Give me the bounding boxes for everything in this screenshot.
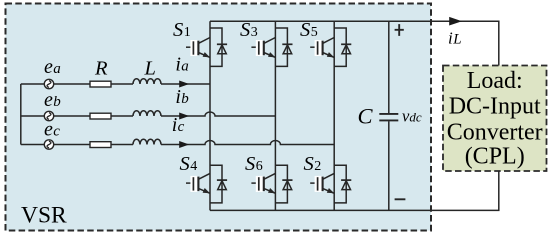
svg-text:Converter: Converter [447, 119, 543, 145]
svg-text:R: R [94, 58, 108, 80]
svg-text:L: L [144, 58, 156, 80]
svg-text:(CPL): (CPL) [465, 144, 525, 170]
svg-text:Load:: Load: [467, 68, 523, 94]
svg-text:C: C [358, 103, 374, 128]
svg-text:DC-Input: DC-Input [449, 93, 541, 119]
svg-text:iL: iL [448, 29, 462, 48]
svg-text:vdc: vdc [402, 107, 422, 126]
svg-text:VSR: VSR [21, 203, 67, 229]
